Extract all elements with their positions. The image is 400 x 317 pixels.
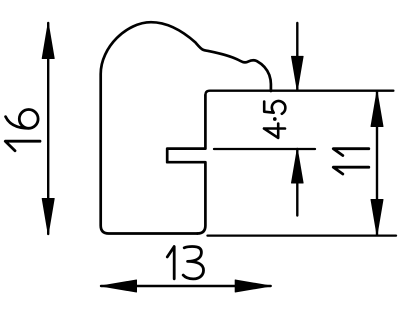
digit 1 of 13 xyxy=(167,247,174,279)
dimension 11: vertical dimension line xyxy=(376,92,378,236)
dimension 4.5: upper dimension line segment xyxy=(296,23,298,90)
label 16 (rotated) xyxy=(5,110,40,151)
digit 3 of 13 xyxy=(183,247,203,279)
label 4.5 (rotated) xyxy=(264,101,285,138)
rabbet top edge line (extends right as extension line for 4.5 and 11) xyxy=(205,91,393,95)
second digit 1 of 11 xyxy=(333,149,369,156)
dimension 13: left arrowhead xyxy=(101,280,137,292)
dimension 13: horizontal dimension line xyxy=(101,285,271,287)
label 11 (rotated) xyxy=(333,149,369,174)
label 13 xyxy=(167,247,203,279)
digit 1 of 16 xyxy=(5,141,40,151)
dimension 4.5: up arrowhead xyxy=(292,149,304,183)
dimension 16: vertical dimension line xyxy=(47,23,49,234)
dimension 11: bottom arrowhead xyxy=(371,200,383,236)
dimension 4.5: lower dimension line segment xyxy=(296,149,298,216)
digit 4 of 4.5 xyxy=(264,124,285,138)
decimal point of 4.5 xyxy=(273,117,277,121)
first digit 1 of 11 xyxy=(333,167,369,174)
bottom baseline extension line xyxy=(208,234,397,236)
dimension 16: top arrowhead xyxy=(42,23,54,59)
moulding profile outline (left wall, decorative top curve, right vertical) xyxy=(101,22,271,233)
digit 5 of 4.5 xyxy=(264,101,285,114)
dimension 13: right arrowhead xyxy=(235,280,271,292)
ledge extension line at notch level xyxy=(214,148,315,150)
dimension 11: top arrowhead xyxy=(371,91,383,126)
digit 6 of 16 xyxy=(6,110,39,129)
dimension 4.5: down arrowhead xyxy=(292,56,304,90)
rabbet inner wall with slot/notch xyxy=(167,95,205,233)
dimension 16: bottom arrowhead xyxy=(42,199,54,235)
